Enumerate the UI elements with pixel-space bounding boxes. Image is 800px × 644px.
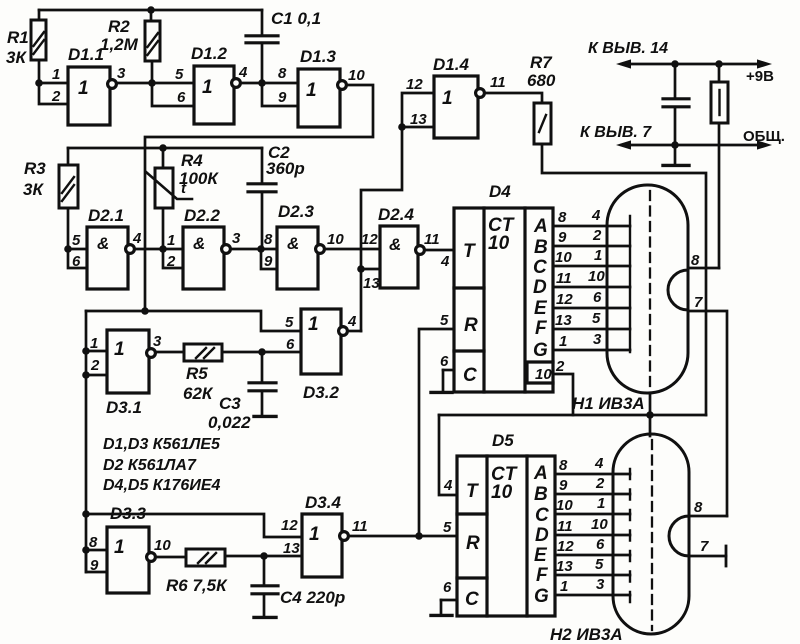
- svg-text:2: 2: [51, 88, 61, 105]
- gate U D1.1 (inverter): [68, 67, 116, 125]
- capacitor C2: [261, 148, 264, 183]
- svg-text:3: 3: [232, 230, 241, 247]
- svg-text:R6 7,5К: R6 7,5К: [166, 576, 228, 595]
- svg-text:8: 8: [559, 457, 568, 474]
- resistor R7: [534, 103, 551, 144]
- svg-text:C3: C3: [219, 394, 241, 413]
- node C1 bottom junction: [258, 79, 266, 87]
- svg-text:13: 13: [283, 540, 300, 557]
- node C4 top junction: [260, 552, 268, 560]
- wire D1.1 pin1: [39, 82, 68, 85]
- wire left bus down to D3.3: [85, 311, 88, 572]
- wire D5 A to H2: [555, 473, 630, 476]
- svg-text:100К: 100К: [179, 169, 219, 188]
- capacitor C3: [261, 352, 264, 382]
- svg-text:4: 4: [132, 230, 142, 247]
- svg-text:&: &: [287, 234, 299, 253]
- wire D4 C input: [443, 369, 454, 372]
- svg-text:13: 13: [556, 558, 573, 575]
- svg-text:4: 4: [440, 253, 450, 270]
- svg-text:D: D: [535, 525, 549, 546]
- capacitor filter: [674, 64, 677, 98]
- wire D5 C input: [441, 599, 457, 602]
- svg-text:+9В: +9В: [746, 68, 774, 85]
- wire riser to D4.R: [419, 329, 454, 536]
- svg-text:4: 4: [591, 207, 601, 224]
- svg-text:B: B: [534, 237, 548, 258]
- svg-text:1: 1: [308, 314, 319, 335]
- svg-text:1: 1: [597, 495, 605, 512]
- wire D3.4 out to D5.R: [349, 535, 457, 538]
- svg-text:F: F: [536, 565, 549, 586]
- wire D5 C out to H2: [555, 513, 630, 516]
- wire R4 bottom: [162, 208, 165, 249]
- svg-text:3К: 3К: [23, 180, 44, 199]
- svg-text:1: 1: [309, 524, 320, 545]
- svg-text:D3.2: D3.2: [303, 383, 339, 402]
- svg-text:3: 3: [593, 331, 602, 348]
- svg-text:1: 1: [559, 333, 567, 350]
- svg-text:5: 5: [443, 519, 452, 536]
- svg-text:8: 8: [264, 231, 273, 248]
- gate U D3.4 (inverter): [302, 514, 348, 577]
- svg-text:12: 12: [557, 538, 574, 555]
- svg-text:6: 6: [596, 536, 605, 553]
- svg-text:C: C: [533, 257, 547, 278]
- node D3.3 pin8 junction: [82, 546, 90, 554]
- wire D4 G to H1: [553, 349, 630, 352]
- capacitor C4: [263, 556, 266, 585]
- svg-text:R4: R4: [181, 151, 203, 170]
- supply element (anode feed): [718, 64, 721, 82]
- resistor R4 (trimmer): [146, 168, 192, 208]
- svg-text:D2.2: D2.2: [184, 206, 220, 225]
- svg-text:12: 12: [281, 517, 298, 534]
- H1 filament dashed line: [649, 191, 651, 390]
- svg-text:3: 3: [153, 333, 162, 350]
- wire D2.4 out to D4.T: [425, 249, 454, 252]
- svg-text:6: 6: [593, 289, 602, 306]
- svg-text:13: 13: [555, 312, 572, 329]
- svg-text:C4 220p: C4 220p: [280, 588, 345, 607]
- svg-text:R3: R3: [24, 159, 46, 178]
- wire D1.4 out to R7: [485, 93, 542, 103]
- wire D3.1 out to R5: [156, 351, 184, 354]
- wire R1 top stub: [38, 10, 41, 20]
- wire top supply rail: [39, 9, 262, 12]
- wire D2.1 out to D2.2: [135, 248, 183, 251]
- wire D4 D to H1: [553, 286, 630, 289]
- gate U D3.3 (inverter): [107, 527, 155, 593]
- node supply element top: [715, 60, 723, 68]
- svg-text:D1.1: D1.1: [68, 45, 104, 64]
- wire R3-R4-C2 top rail: [68, 147, 262, 150]
- node R2 bottom junction: [148, 79, 156, 87]
- wire carry rail to D5.T: [439, 414, 706, 417]
- svg-text:G: G: [534, 586, 549, 607]
- svg-text:&: &: [389, 235, 401, 254]
- svg-text:1: 1: [114, 339, 125, 360]
- wire common rail with arrows: [622, 144, 764, 147]
- node D2.1 input junction: [64, 245, 72, 253]
- svg-text:R7: R7: [530, 53, 553, 72]
- svg-text:12: 12: [361, 231, 378, 248]
- svg-text:2: 2: [555, 358, 565, 375]
- wire H1 pin7 down to H2 pin8: [688, 311, 727, 516]
- svg-text:C1 0,1: C1 0,1: [271, 9, 321, 28]
- svg-text:1: 1: [594, 247, 602, 264]
- svg-text:8: 8: [558, 209, 567, 226]
- H1 grid line: [629, 216, 631, 352]
- svg-text:4: 4: [238, 64, 248, 81]
- wire R5 to D3.2 pin6: [222, 351, 301, 354]
- svg-text:D1.4: D1.4: [433, 55, 469, 74]
- svg-text:3: 3: [596, 576, 605, 593]
- wire D5 G to H2: [555, 594, 630, 597]
- gate U D1.2 (inverter): [194, 66, 240, 124]
- svg-text:E: E: [534, 545, 548, 566]
- H2 filament dashed line: [651, 440, 653, 630]
- svg-text:2: 2: [595, 475, 605, 492]
- gate U D2.3 (NAND): [277, 227, 324, 289]
- svg-text:12: 12: [406, 76, 423, 93]
- wire D5 B to H2: [555, 493, 630, 496]
- svg-text:1: 1: [52, 66, 60, 83]
- wire D4 C out to H1: [553, 265, 630, 268]
- wire D3.1 pin1: [86, 350, 107, 353]
- svg-text:10: 10: [556, 497, 573, 514]
- H1 anode bump: [668, 270, 688, 310]
- wire D1.3 pin9 stub: [262, 83, 298, 106]
- svg-text:К ВЫВ. 7: К ВЫВ. 7: [580, 124, 652, 141]
- wire D3.3 out to R6: [156, 556, 186, 559]
- svg-text:7: 7: [694, 294, 703, 311]
- node C3 top junction: [258, 348, 266, 356]
- svg-text:5: 5: [285, 314, 294, 331]
- svg-text:6: 6: [440, 353, 449, 370]
- wire D3.4 pin12 feed: [86, 514, 302, 537]
- svg-text:11: 11: [424, 231, 440, 248]
- gate U D2.2 (NAND): [183, 227, 230, 289]
- node A riser junction: [141, 307, 149, 315]
- svg-text:&: &: [193, 234, 205, 253]
- node R4 bottom junction: [159, 245, 167, 253]
- wire D4 A to H1: [553, 225, 630, 228]
- wire D4 E to H1: [553, 307, 630, 310]
- svg-text:C: C: [463, 365, 477, 386]
- svg-text:1: 1: [90, 335, 98, 352]
- svg-text:1: 1: [114, 537, 125, 558]
- svg-text:10: 10: [591, 516, 608, 533]
- wire H1 pin8 to supply element: [688, 267, 719, 270]
- svg-text:9: 9: [558, 229, 567, 246]
- svg-text:Н2 ИВ3А: Н2 ИВ3А: [550, 625, 623, 644]
- wire D1.4 pin13: [402, 126, 434, 129]
- svg-text:4: 4: [347, 313, 357, 330]
- svg-text:9: 9: [264, 253, 273, 270]
- wire D3.3 pin8: [86, 549, 107, 552]
- svg-text:R: R: [466, 533, 480, 554]
- node D3.1 pin1 junction: [82, 347, 90, 355]
- wire D2.1 pin5: [68, 248, 87, 251]
- svg-text:G: G: [533, 340, 548, 361]
- resistor R2: [145, 21, 160, 61]
- wire D2.3 pin9 stub: [261, 249, 277, 269]
- svg-text:8: 8: [694, 499, 703, 516]
- svg-text:R2: R2: [108, 17, 130, 36]
- wire D1.2 out to D1.3: [241, 82, 298, 85]
- svg-text:C: C: [465, 589, 479, 610]
- node D1.4 pin13 junction: [398, 123, 406, 131]
- svg-text:9: 9: [278, 89, 287, 106]
- resistor R3: [59, 165, 78, 208]
- svg-text:2: 2: [166, 253, 176, 270]
- svg-text:D3.4: D3.4: [305, 493, 341, 512]
- svg-text:5: 5: [72, 232, 81, 249]
- svg-text:5: 5: [175, 66, 184, 83]
- wire R3 top stub: [67, 148, 70, 165]
- svg-text:D4,D5 К176ИЕ4: D4,D5 К176ИЕ4: [103, 477, 221, 494]
- svg-text:8: 8: [691, 252, 700, 269]
- node R2 top junction: [147, 6, 155, 14]
- svg-text:6: 6: [286, 336, 295, 353]
- svg-text:D2 К561ЛА7: D2 К561ЛА7: [103, 457, 197, 474]
- svg-text:1,2М: 1,2М: [100, 35, 139, 54]
- svg-text:B: B: [534, 484, 548, 505]
- svg-text:2: 2: [592, 227, 602, 244]
- svg-text:11: 11: [556, 270, 572, 287]
- wire D1.3 out feedback to node A: [145, 85, 373, 311]
- resistor R5: [184, 344, 222, 361]
- counter U D5: [457, 456, 555, 616]
- wire R1 bottom to D1.1 inputs: [38, 60, 41, 83]
- ground D5 C: [440, 600, 443, 614]
- wire D3.2 out: [348, 330, 361, 333]
- svg-text:11: 11: [352, 518, 368, 535]
- svg-text:1: 1: [78, 78, 89, 99]
- svg-text:6: 6: [177, 89, 186, 106]
- svg-text:4: 4: [443, 477, 453, 494]
- wire D3.2 out riser to D1.4 inputs: [361, 93, 434, 331]
- svg-text:8: 8: [89, 534, 98, 551]
- wire R2 top stub: [150, 10, 153, 21]
- wire D5 E to H2: [555, 554, 630, 557]
- svg-text:T: T: [466, 481, 479, 502]
- svg-text:1: 1: [442, 88, 453, 109]
- wire H2 pin7 terminal: [689, 555, 726, 558]
- svg-text:10: 10: [491, 482, 513, 503]
- svg-text:R5: R5: [186, 364, 208, 383]
- ground D4 C: [442, 370, 445, 391]
- svg-text:9: 9: [90, 557, 99, 574]
- wire D2.4 pin13 stub: [361, 268, 380, 271]
- wire node A horizontal run to D3.2 pin5: [86, 311, 301, 331]
- svg-text:D4: D4: [489, 182, 511, 201]
- node D3.1 pin2 junction: [82, 371, 90, 379]
- svg-text:10: 10: [588, 268, 605, 285]
- ground bar below C4: [254, 616, 276, 619]
- svg-text:62К: 62К: [183, 384, 214, 403]
- wire +9V rail with arrows: [622, 63, 764, 66]
- gate U D2.4 (NAND): [380, 226, 424, 288]
- wire R3 bottom: [67, 208, 70, 249]
- svg-text:D1.2: D1.2: [191, 44, 227, 63]
- wire D2.3 out to D2.4: [325, 248, 380, 251]
- wire D2.2 out to D2.3: [231, 248, 277, 251]
- svg-text:3К: 3К: [6, 48, 27, 67]
- svg-text:D5: D5: [492, 431, 514, 450]
- wire D2.2 pin2 stub: [163, 249, 183, 268]
- svg-text:13: 13: [410, 111, 427, 128]
- svg-text:R1: R1: [7, 28, 29, 47]
- wire supply element to H1 pin8: [718, 123, 721, 268]
- wire D3.3 pin9 stub: [86, 550, 107, 572]
- wire R6 to D3.4 pin13: [225, 555, 302, 558]
- gate U D1.4 (inverter): [434, 76, 484, 138]
- wire D1.1 pin2 stub: [39, 83, 68, 104]
- wire D4 B to H1: [553, 245, 630, 248]
- wire H1 bottom to H2 top: [649, 393, 652, 436]
- svg-text:C: C: [535, 505, 549, 526]
- node D1.1 input junction: [35, 79, 43, 87]
- capacitor C1: [261, 10, 264, 35]
- node R4 top junction: [159, 144, 167, 152]
- svg-text:ОБЩ.: ОБЩ.: [743, 128, 785, 145]
- wire H2 pin8 riser: [689, 515, 727, 518]
- svg-text:3: 3: [117, 65, 126, 82]
- node filter cap top: [671, 60, 679, 68]
- svg-text:D2.3: D2.3: [278, 202, 314, 221]
- gate U D2.1 (NAND): [87, 227, 134, 289]
- svg-text:R: R: [464, 315, 478, 336]
- wire R2 bottom: [151, 61, 154, 83]
- svg-text:Н1 ИВ3А: Н1 ИВ3А: [572, 394, 645, 413]
- svg-text:11: 11: [557, 518, 573, 535]
- svg-text:6: 6: [72, 253, 81, 270]
- svg-text:5: 5: [592, 310, 601, 327]
- svg-text:1: 1: [306, 80, 317, 101]
- svg-text:1: 1: [202, 77, 213, 98]
- svg-text:5: 5: [595, 556, 604, 573]
- svg-text:D: D: [533, 277, 547, 298]
- svg-text:4: 4: [594, 455, 604, 472]
- svg-text:D1,D3 К561ЛЕ5: D1,D3 К561ЛЕ5: [103, 436, 221, 453]
- node C2 bottom junction: [257, 245, 265, 253]
- wire D2.1 pin6 stub: [68, 249, 87, 268]
- node common rail junction: [671, 141, 679, 149]
- svg-text:D3.3: D3.3: [110, 504, 146, 523]
- svg-text:12: 12: [556, 291, 573, 308]
- svg-text:8: 8: [278, 65, 287, 82]
- svg-text:1: 1: [167, 232, 175, 249]
- svg-text:E: E: [534, 298, 548, 319]
- wire R7 bottom to carry rail: [542, 144, 706, 415]
- gate U D3.1 (inverter): [107, 330, 155, 393]
- svg-text:10: 10: [535, 366, 552, 383]
- svg-text:680: 680: [527, 71, 556, 90]
- svg-text:10: 10: [488, 233, 510, 254]
- svg-text:360p: 360p: [266, 159, 305, 178]
- wire D5 D to H2: [555, 534, 630, 537]
- svg-text:6: 6: [443, 579, 452, 596]
- wire R4 top stub: [162, 148, 165, 168]
- svg-text:D2.1: D2.1: [88, 206, 124, 225]
- ground bar below C3: [254, 415, 276, 418]
- svg-text:A: A: [533, 216, 548, 237]
- resistor R1: [31, 20, 46, 60]
- svg-text:7: 7: [700, 538, 709, 555]
- wire D1.1 out to D1.2: [117, 82, 194, 85]
- wire D5 F to H2: [555, 574, 630, 577]
- svg-text:A: A: [533, 463, 548, 484]
- wire D1.2 pin6 stub: [152, 83, 194, 106]
- svg-text:10: 10: [327, 231, 344, 248]
- node D2.4 pin13 junction: [357, 265, 365, 273]
- node D4 R riser junction: [415, 532, 423, 540]
- node H1 filament junction: [646, 411, 654, 419]
- indicator H1 IV-3A envelope: [607, 185, 688, 393]
- wire D3.1 pin2: [86, 374, 107, 377]
- counter U D4: [454, 208, 553, 392]
- ground bar below filter cap: [663, 164, 689, 167]
- node D3.4 pin12 feed junction: [82, 510, 90, 518]
- svg-text:&: &: [97, 234, 109, 253]
- H2 anode bump: [669, 516, 689, 556]
- svg-text:5: 5: [440, 312, 449, 329]
- svg-text:D2.4: D2.4: [378, 205, 414, 224]
- svg-text:10: 10: [555, 249, 572, 266]
- H2 grid line: [629, 469, 631, 602]
- svg-text:9: 9: [559, 477, 568, 494]
- resistor R6: [186, 549, 225, 566]
- gate U D3.2 (inverter): [301, 309, 347, 374]
- indicator H2 IV-3A envelope: [613, 434, 689, 634]
- svg-text:0,022: 0,022: [208, 413, 251, 432]
- svg-text:10: 10: [348, 67, 365, 84]
- svg-text:11: 11: [490, 74, 506, 91]
- wire D4 F to H1: [553, 328, 630, 331]
- svg-text:10: 10: [154, 537, 171, 554]
- gate U D1.3 (inverter): [298, 69, 346, 127]
- svg-text:D1.3: D1.3: [300, 47, 336, 66]
- wire D4 carry pin2: [553, 374, 573, 415]
- svg-text:1: 1: [560, 578, 568, 595]
- svg-text:F: F: [535, 318, 548, 339]
- svg-text:К ВЫВ. 14: К ВЫВ. 14: [588, 40, 668, 57]
- svg-text:T: T: [463, 241, 476, 262]
- svg-text:13: 13: [363, 275, 380, 292]
- svg-text:2: 2: [90, 357, 100, 374]
- svg-text:D3.1: D3.1: [106, 398, 142, 417]
